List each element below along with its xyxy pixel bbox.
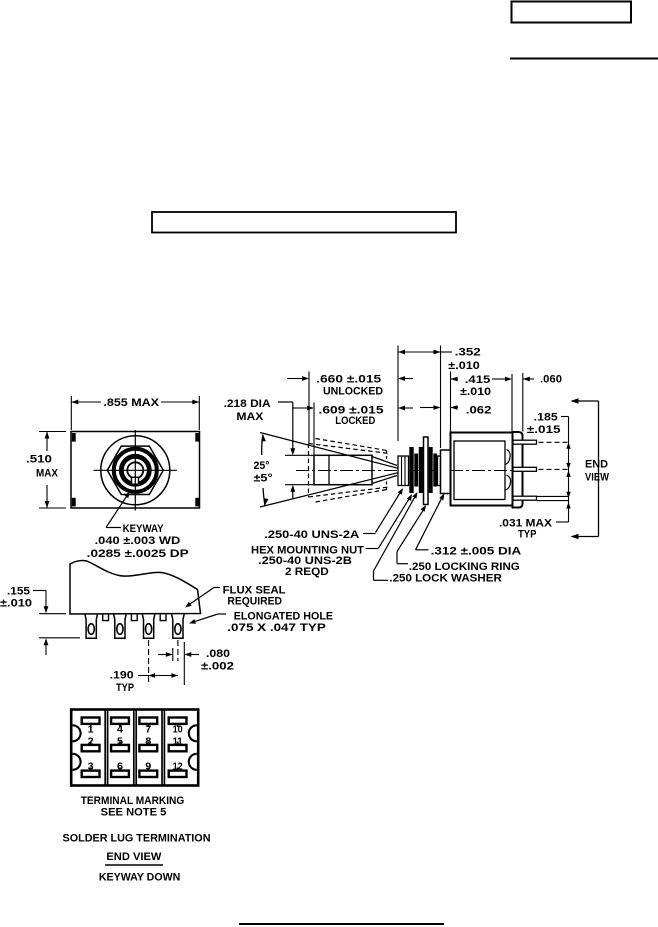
washer bar 1 [414,454,418,487]
front view corner marks [72,433,76,442]
svg-text:25°: 25° [254,460,270,472]
ext stub lug 4 left [172,648,174,661]
marking divider line 6 [163,710,165,786]
svg-text:.075 X .047 TYP: .075 X .047 TYP [227,622,325,634]
terminal 1 [513,440,537,444]
svg-text:2 REQD: 2 REQD [285,566,329,578]
center empty figure-title box [152,212,456,233]
svg-text:.250 LOCK WASHER: .250 LOCK WASHER [389,573,501,585]
ext line body rear [511,374,513,432]
svg-text:.415: .415 [465,374,491,386]
svg-text:.218 DIA: .218 DIA [224,398,271,410]
lever circle [127,462,143,478]
terminal 3 [513,496,537,500]
right notch semicircles [189,725,197,741]
svg-text:.510: .510 [26,454,52,466]
lever diameter extension lines [285,454,314,456]
end view underline [105,864,163,866]
svg-text:MAX: MAX [236,411,264,423]
svg-text:.040 ±.003 WD: .040 ±.003 WD [95,535,181,547]
ext line cap rear [522,373,524,432]
svg-text:±.015: ±.015 [527,424,561,436]
marking divider line 3 [133,710,135,786]
terminal 2 centerline [539,468,569,470]
svg-text:±.010: ±.010 [0,598,32,610]
edge terminal tab 3 [160,614,166,620]
dim .510 MAX dimension line [46,432,48,452]
switch body [451,433,513,506]
svg-text:SEE NOTE 5: SEE NOTE 5 [101,806,167,818]
dim .660 unlocked [287,378,302,380]
lug view body with break line [70,560,201,614]
thread stub [438,456,441,486]
nut inscribed circle [114,449,157,492]
terminal 3 edge lines [537,495,569,497]
leader locking ring [397,563,408,565]
svg-text:.250 LOCKING RING: .250 LOCKING RING [409,561,520,573]
threaded bushing [398,456,409,486]
svg-text:±5°: ±5° [254,473,273,485]
svg-text:.185: .185 [534,411,558,423]
svg-text:END VIEW: END VIEW [106,851,162,863]
svg-text:.155: .155 [7,586,30,598]
switch body inner liner [454,441,505,500]
dim .190 [138,675,178,677]
svg-text:±.002: ±.002 [201,661,234,673]
svg-text:10: 10 [173,723,183,735]
svg-text:±.010: ±.010 [460,386,491,398]
hex nut [107,446,163,494]
throw angle upper envelope line [260,433,398,469]
hex mounting nut 2 [419,447,423,493]
marking column 3 pads and numbers [139,718,157,724]
svg-text:KEYWAY DOWN: KEYWAY DOWN [99,871,180,883]
edge terminal tab 2 [131,614,137,620]
svg-text:VIEW: VIEW [585,472,610,484]
dim .062 [420,407,434,409]
leader lock washer [374,579,389,581]
svg-text:4: 4 [117,723,123,735]
throw angle lower envelope line [260,473,398,507]
dim .155 leader and refs [33,590,46,592]
svg-text:MAX: MAX [36,468,59,480]
leader .312 dia [416,549,429,551]
svg-text:.250-40 UNS-2A: .250-40 UNS-2A [264,529,359,541]
solder lug 2 [114,614,127,638]
terminal 1 centerline [539,441,569,443]
marking divider line 1 [104,710,106,786]
dim .415 [451,377,458,382]
svg-text:.855 MAX: .855 MAX [103,397,159,409]
leader flux seal [214,587,220,589]
lever neck to bushing [372,457,397,466]
ext line lever tip unlocked [308,372,310,444]
svg-text:TYP: TYP [518,529,537,541]
bushing outer circle [101,436,170,505]
marking column 2 pads and numbers [111,718,129,724]
marking divider line 4 [135,710,137,786]
marking column 1 pads and numbers [82,718,100,724]
ext line lever tip locked [313,403,315,456]
top right horizontal rule [510,58,658,60]
leader hex nut [366,548,379,550]
dim .352 [398,351,441,353]
lug 3 centerline [148,640,150,683]
svg-text:ELONGATED HOLE: ELONGATED HOLE [234,611,333,623]
side view centerline [296,470,513,472]
dim .510 MAX extension lines [39,431,66,433]
ext line thread end [440,346,442,449]
dim .609 locked [292,407,307,409]
svg-text:SOLDER LUG TERMINATION: SOLDER LUG TERMINATION [63,832,211,844]
svg-text:UNLOCKED: UNLOCKED [323,385,383,397]
toggle lever (locked, solid) [314,455,372,484]
lock washer [429,447,433,493]
dim .060 [523,377,530,382]
svg-text:.312 ±.005 DIA: .312 ±.005 DIA [431,545,522,557]
svg-text:.660 ±.015: .660 ±.015 [316,373,381,385]
leader elongated hole [218,613,226,615]
marking column 4 pads and numbers [169,718,187,724]
ext line lug 4 right [183,642,185,685]
.218 leader [278,401,293,403]
keyway notch [132,477,139,484]
left notch semicircles [73,725,81,741]
front view crosshair centerlines [94,469,178,471]
solder lug 4 [172,614,185,638]
thread ring [121,456,149,484]
dim .855 MAX dimension line [71,401,101,403]
svg-text:7: 7 [145,723,151,735]
dim .855 MAX extension lines [70,396,72,430]
angle dimension arc lower [263,488,265,506]
end view direction bracket [598,401,600,537]
svg-text:±.010: ±.010 [448,360,479,372]
svg-text:.190: .190 [110,670,134,682]
svg-text:KEYWAY: KEYWAY [123,523,165,535]
svg-text:.080: .080 [206,648,230,660]
washer bar 2 [433,454,437,487]
hex mounting nut 1 [409,447,413,493]
terminal base bracket upper [506,450,511,465]
.312 flange [441,450,451,494]
terminal marking box [71,710,198,786]
svg-text:.060: .060 [540,374,562,386]
lug 4 centerline [177,640,179,661]
terminal 2 [513,467,537,471]
marking divider line 5 [161,710,163,786]
leader UNS-2A [363,533,376,535]
svg-text:REQUIRED: REQUIRED [227,596,282,608]
svg-text:TYP: TYP [116,682,134,694]
solder lug 3 [142,614,155,638]
lever unlocked dashed outline [309,444,390,454]
edge terminal tab 1 [103,614,109,620]
dim .080 [158,654,166,656]
svg-text:END: END [585,459,608,471]
svg-text:.062: .062 [466,405,492,417]
svg-text:.0285 ±.0025 DP: .0285 ±.0025 DP [87,548,189,560]
svg-text:LOCKED: LOCKED [335,415,375,427]
top right empty title box [512,2,632,23]
angle dimension arc upper [262,435,263,456]
svg-text:TERMINAL MARKING: TERMINAL MARKING [81,795,185,807]
front view body outline [71,432,200,509]
marking divider line 2 [107,710,109,786]
ext line mounting face [397,346,399,442]
svg-text:1: 1 [88,723,94,735]
keyway leader [106,527,121,529]
ext line body front [450,372,452,432]
terminal base bracket lower [506,475,511,490]
solder lug 1 [85,614,98,638]
bottom rule [239,923,444,925]
svg-text:.352: .352 [455,347,481,359]
end cap [513,432,523,508]
locking ring [424,437,429,505]
